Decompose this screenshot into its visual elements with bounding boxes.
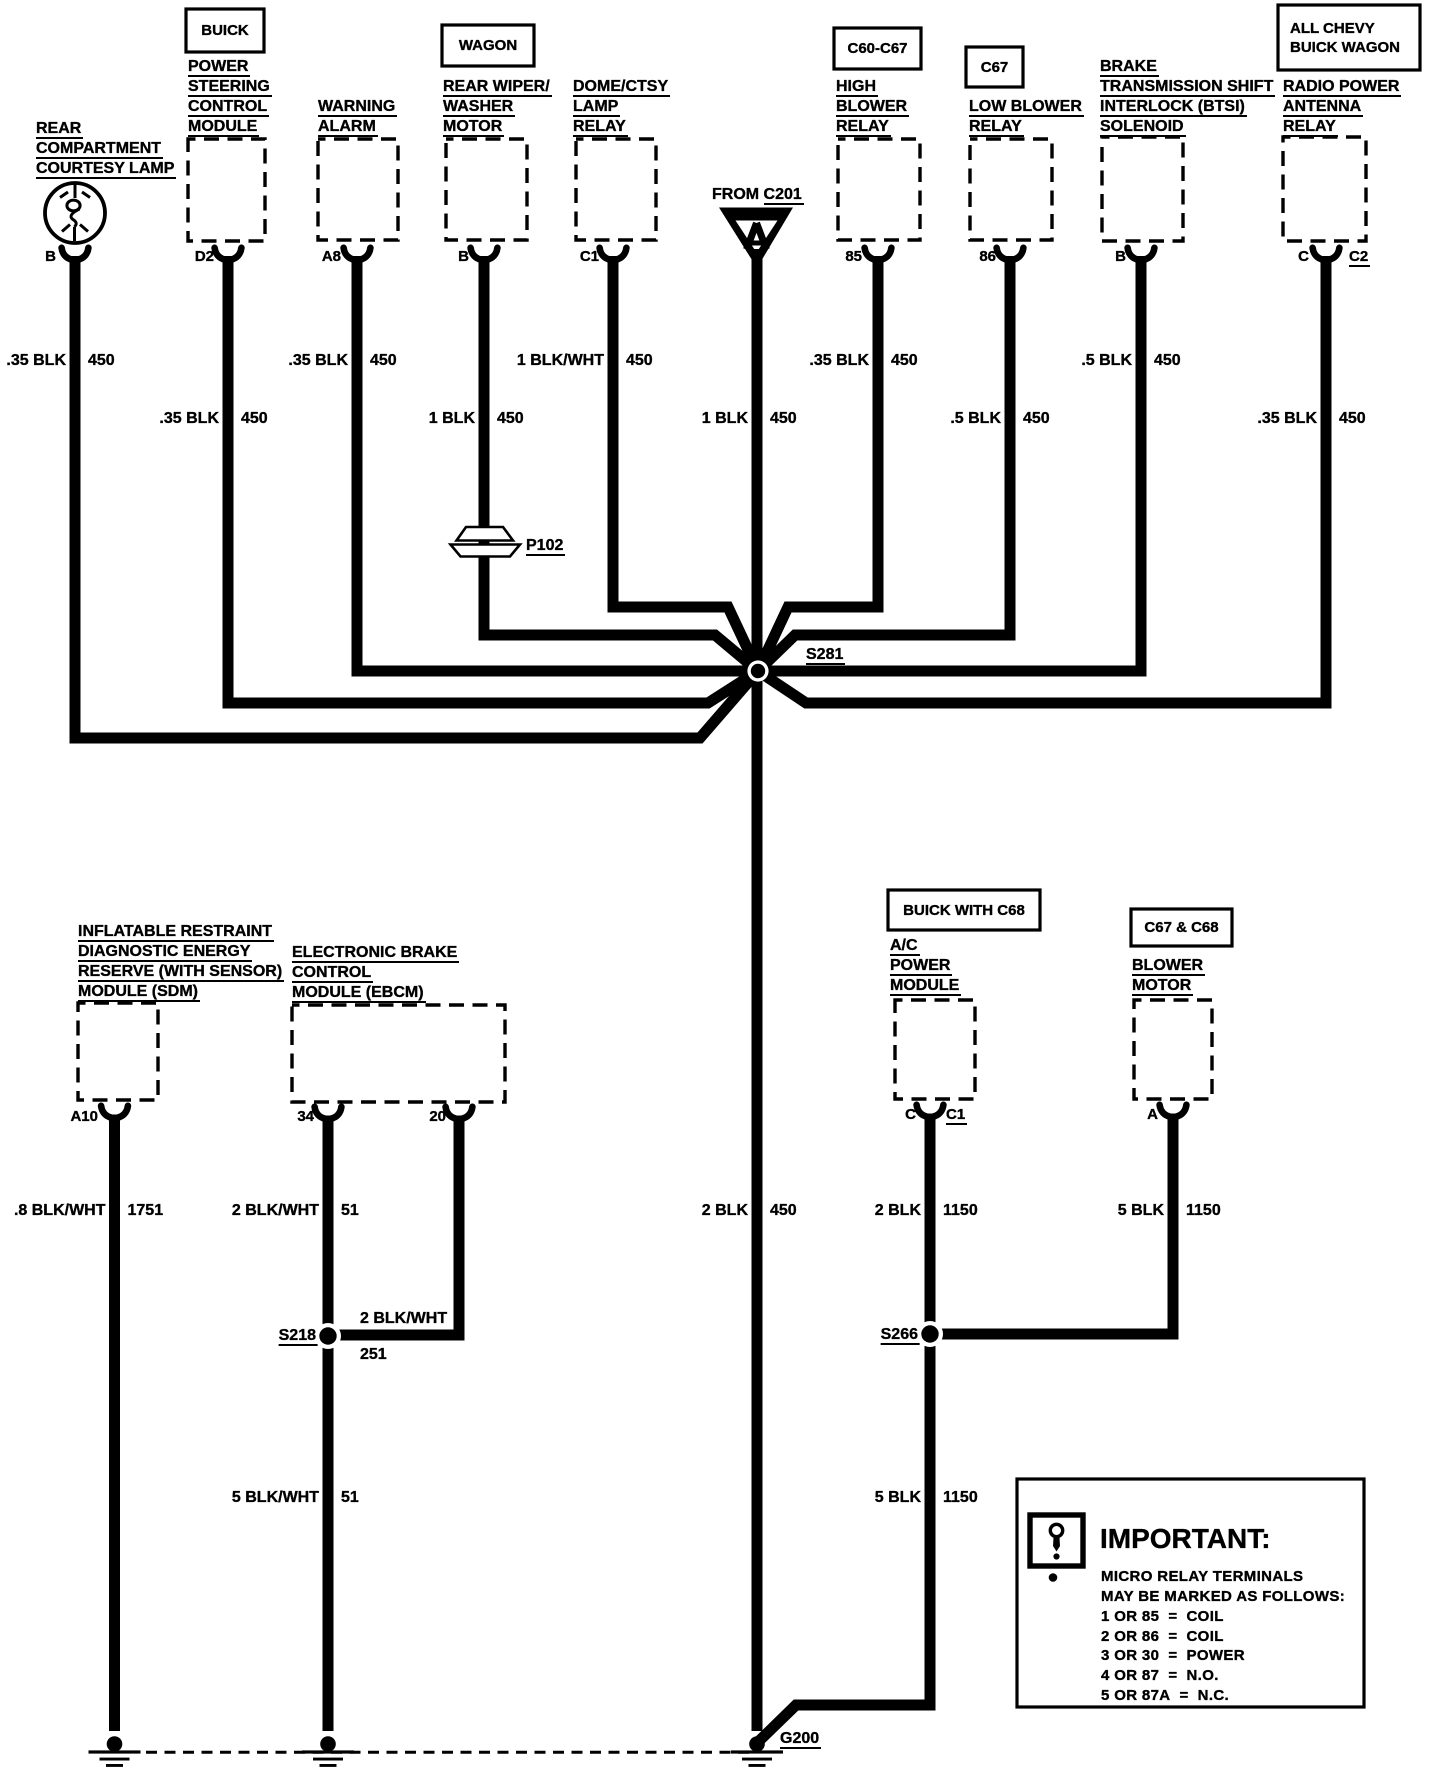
wire label .8 BLK/WHT 1751 (SDM) — [14, 1201, 106, 1221]
heading IMPORTANT: — [1100, 1523, 1271, 1555]
wire: SDM pin A10, .8 BLK/WHT 1751, to G200 — [109, 1116, 120, 1731]
label: power steering control module — [188, 57, 272, 137]
title C67 — [966, 47, 1023, 87]
title BUICK — [186, 9, 264, 52]
splice S281 — [747, 660, 768, 681]
wire label 2 BLK 1150 (A/C) — [875, 1201, 921, 1221]
wire: high blower relay pin 85, .35 BLK 450, to S281 — [758, 256, 878, 671]
connector Y at A/C pin C — [917, 1105, 944, 1117]
label: rear compartment courtesy lamp — [36, 119, 176, 179]
pin label C (radio) — [1298, 248, 1309, 266]
pin label C1 — [580, 248, 599, 266]
label 2 BLK/WHT (S218 branch) — [360, 1309, 447, 1329]
pin label 20 — [429, 1108, 446, 1126]
label: warning alarm — [318, 97, 397, 137]
pin label 85 — [845, 248, 862, 266]
note box IMPORTANT — [1017, 1479, 1364, 1707]
ground symbol (EBCM wire) — [302, 1736, 354, 1767]
ground G200 — [731, 1736, 783, 1767]
wire label .35 BLK 450 (A8) — [288, 351, 348, 371]
connector Y at blower pin A — [1160, 1105, 1187, 1117]
pin label D2 — [195, 248, 214, 266]
dashed box: A/C power module — [895, 1000, 975, 1099]
wire label .5 BLK 450 (86) — [950, 409, 1001, 429]
wire: main ground wire from C201 triangle through S281 to G200, 1 BLK / 2 BLK 450 — [752, 249, 763, 1731]
label G200 — [780, 1729, 821, 1749]
pin label C2 (radio, underlined) — [1349, 248, 1370, 266]
wire label 1 BLK 450 (wiper) — [429, 409, 475, 429]
wire label .35 BLK 450 (D2) — [159, 409, 219, 429]
dashed ground bus line — [146, 1751, 753, 1754]
pin label C (A/C) — [905, 1106, 916, 1124]
pin label B (BTSI) — [1115, 248, 1126, 266]
qualifier box WAGON — [442, 25, 534, 66]
qualifier box C67 — [966, 47, 1023, 87]
connector Y at pin C1 — [600, 248, 627, 260]
wire label 5 BLK/WHT 51 (lower EBCM) — [232, 1488, 319, 1508]
connector Y at EBCM pin 20 — [446, 1107, 473, 1119]
ground symbol (SDM wire) — [89, 1736, 141, 1767]
dashed box: rear wiper/washer motor — [446, 139, 527, 240]
wire: rear wiper/washer motor pin B, 1 BLK 450, through P102 to S281 — [484, 256, 758, 671]
wire: warning alarm pin A8, .35 BLK 450, to S281 — [357, 256, 758, 671]
label 251 (S218 branch circuit) — [360, 1345, 387, 1365]
qualifier box BUICK WITH C68 — [888, 890, 1040, 930]
wire: BTSI solenoid pin B, .5 BLK 450, to S281 — [758, 256, 1141, 671]
splice S266 — [917, 1321, 943, 1347]
note text: micro relay terminal legend — [1101, 1567, 1345, 1706]
title WAGON — [442, 25, 534, 66]
connector Y at pin 86 — [997, 248, 1024, 260]
qualifier box C60-C67 — [834, 28, 921, 69]
title C60-C67 — [834, 28, 921, 69]
dashed box: EBCM module — [292, 1005, 505, 1102]
pin label A10 — [70, 1108, 98, 1126]
wire label .5 BLK 450 (BTSI) — [1081, 351, 1132, 371]
dashed box: SDM module — [78, 1003, 158, 1100]
pin label 86 — [979, 248, 996, 266]
dashed box: high blower relay — [838, 139, 920, 240]
splice S218 — [315, 1323, 341, 1349]
label P102 — [526, 536, 565, 556]
wire: low blower relay pin 86, .5 BLK 450, to S281 — [758, 256, 1010, 671]
label: blower motor — [1132, 956, 1205, 996]
connector Y at EBCM pin 34 — [315, 1107, 342, 1119]
wire: EBCM pin 34, 2 BLK/WHT 51 / 5 BLK/WHT 51, through S218 to G200 — [323, 1116, 334, 1731]
connector Y at pin A8 — [344, 248, 371, 260]
connector Y at BTSI pin B — [1128, 248, 1155, 260]
wire label 1 BLK 450 (main) — [702, 409, 748, 429]
rear compartment courtesy lamp symbol (bulb) — [45, 183, 105, 243]
wire: rear compartment courtesy lamp pin B, .35 BLK 450, to S281 — [75, 256, 758, 738]
dashed box: BTSI solenoid — [1102, 137, 1183, 241]
dashed box: low blower relay — [970, 139, 1052, 240]
pin label A8 — [322, 248, 341, 266]
label: high blower relay — [836, 77, 909, 137]
connector Y at wiper pin B — [471, 248, 498, 260]
pin label C1 (A/C, underlined) — [946, 1106, 967, 1124]
wire label .35 BLK 450 (lamp) — [6, 351, 66, 371]
connector symbol FROM C201 (triangle A) — [719, 208, 793, 269]
label S218 — [279, 1326, 318, 1346]
dashed box: radio power antenna relay — [1283, 137, 1366, 241]
note bullet — [1049, 1573, 1058, 1582]
pin label B (wiper) — [458, 248, 469, 266]
qualifier box C67 & C68 — [1131, 909, 1232, 946]
wire: blower motor pin A, 5 BLK 1150, left to splice S266 — [930, 1116, 1173, 1334]
wire label 2 BLK/WHT 51 (EBCM 34) — [232, 1201, 319, 1221]
qualifier box ALL CHEVY BUICK WAGON — [1278, 5, 1420, 70]
title C67 & C68 — [1131, 909, 1232, 946]
pin label A (blower) — [1147, 1106, 1158, 1124]
connector Y at pin 85 — [865, 248, 892, 260]
label: dome/ctsy lamp relay — [573, 77, 670, 137]
wire label 5 BLK 1150 (lower A/C) — [875, 1488, 921, 1508]
label: FROM C201 — [712, 185, 804, 205]
wire label 5 BLK 1150 (blower) — [1118, 1201, 1164, 1221]
wire: A/C power module pin C, 2 BLK 1150 / 5 BLK 1150, through S266 to G200 — [757, 1116, 930, 1743]
wire label 2 BLK 450 (main) — [702, 1201, 748, 1221]
wire label .35 BLK 450 (85) — [809, 351, 869, 371]
qualifier box BUICK — [186, 9, 264, 52]
dashed box: warning alarm — [318, 139, 398, 240]
label: inflatable restraint SDM module — [78, 922, 284, 1002]
dashed box: blower motor — [1134, 1000, 1212, 1099]
title ALL CHEVY BUICK WAGON — [1290, 19, 1400, 57]
label: electronic brake control module EBCM — [292, 943, 459, 1003]
connector Y at pin A10 — [101, 1106, 128, 1118]
label: brake transmission shift interlock (BTSI) solenoid — [1100, 57, 1275, 137]
label: radio power antenna relay — [1283, 77, 1401, 137]
pin label B (lamp) — [45, 248, 56, 266]
wire: power steering control module pin D2, .35 BLK 450, to S281 — [228, 256, 758, 703]
wire: EBCM pin 20 down and left (2 BLK/WHT 251) to splice S218 — [328, 1116, 459, 1335]
dashed box: power steering control module — [188, 139, 265, 241]
wire label 1 BLK/WHT 450 (C1) — [517, 351, 604, 371]
connector Y at lamp pin B — [62, 248, 89, 260]
pin label 34 — [297, 1108, 314, 1126]
inline connector P102 — [451, 527, 521, 557]
connector Y at radio pin C — [1313, 248, 1340, 260]
connector Y at pin D2 — [215, 248, 242, 260]
wire label .35 BLK 450 (radio) — [1257, 409, 1317, 429]
label S281 — [806, 645, 845, 665]
label: low blower relay — [969, 97, 1084, 137]
dashed box: dome/ctsy lamp relay — [576, 139, 656, 240]
label: rear wiper/washer motor — [443, 77, 552, 137]
label S266 — [881, 1325, 920, 1345]
label: A/C power module — [890, 936, 961, 996]
wire: dome/ctsy lamp relay pin C1, 1 BLK/WHT 450, to S281 — [613, 256, 758, 671]
important icon (exclamation) — [1030, 1515, 1083, 1566]
wire: radio power antenna relay pin C, .35 BLK 450, to S281 — [758, 256, 1326, 703]
title BUICK WITH C68 — [888, 890, 1040, 930]
